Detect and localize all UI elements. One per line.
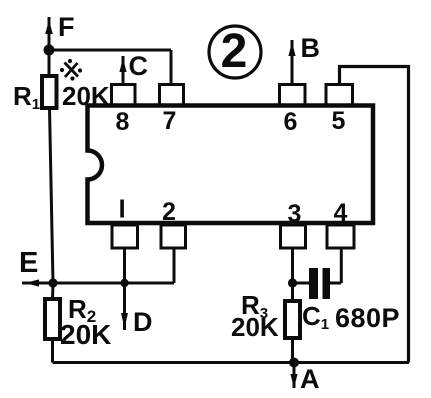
- wire R3 bottom lead: [291, 338, 294, 363]
- pin 3 box: [281, 225, 306, 248]
- wire R2 bottom lead: [51, 339, 54, 363]
- junction dot pin1: [120, 279, 128, 287]
- wire pin1 drop to D: [123, 248, 126, 330]
- svg-text:4: 4: [334, 199, 348, 227]
- pin 6 box: [280, 85, 306, 106]
- wire F riser: [48, 17, 51, 50]
- svg-text:E: E: [19, 247, 38, 279]
- pin 5 box: [326, 85, 353, 106]
- wire pin2 riser: [173, 248, 176, 283]
- wire R1 bottom lead down left side: [50, 108, 54, 283]
- figure number 2 circle: [209, 26, 261, 78]
- svg-text:2: 2: [162, 198, 176, 226]
- wire pin7 drop: [170, 50, 173, 87]
- op-amp IC U1 body with notch: [88, 106, 374, 224]
- svg-text:20K: 20K: [231, 312, 279, 342]
- pin 1 box: [112, 225, 138, 248]
- svg-text:2: 2: [221, 25, 248, 78]
- wire pin5 up over to right side down: [340, 67, 409, 363]
- junction dot pin3: [288, 278, 297, 287]
- pin 7 box: [160, 85, 184, 106]
- node C arrow: [122, 56, 125, 87]
- node A arrow: [293, 363, 296, 389]
- node F arrow: [45, 20, 53, 34]
- svg-text:7: 7: [163, 107, 177, 135]
- wire pin4 drop: [340, 248, 343, 283]
- svg-text:8: 8: [116, 108, 130, 136]
- svg-text:A: A: [300, 364, 320, 394]
- node D arrow: [121, 313, 128, 328]
- svg-text:5: 5: [332, 107, 346, 135]
- wire E horizontal to pin2: [53, 282, 174, 285]
- svg-text:D: D: [133, 307, 153, 337]
- resistor R1: [42, 76, 57, 108]
- capacitor C1: [309, 268, 318, 299]
- svg-text:3: 3: [288, 200, 302, 228]
- junction dot F: [44, 45, 55, 56]
- resistor R2: [45, 299, 60, 339]
- pin 4 box: [327, 225, 354, 248]
- resistor R3: [285, 301, 300, 338]
- svg-text:6: 6: [284, 108, 298, 136]
- wire R2 top lead: [51, 283, 55, 299]
- node E arrow: [22, 282, 53, 285]
- wire pin3 drop: [291, 248, 294, 301]
- svg-text:680P: 680P: [335, 303, 400, 333]
- pin 1 number: [120, 200, 124, 218]
- svg-text:B: B: [301, 33, 321, 63]
- wire cap right lead: [330, 282, 341, 285]
- svg-text:20K: 20K: [60, 319, 111, 350]
- wire top horizontal to pin7: [49, 49, 171, 52]
- wire bottom horizontal: [53, 361, 410, 364]
- junction dot A: [289, 358, 299, 368]
- pin 8 box: [112, 85, 136, 106]
- svg-text:F: F: [58, 12, 75, 42]
- wire cap left lead: [293, 282, 310, 285]
- node B arrow: [291, 40, 294, 87]
- junction dot E: [48, 278, 57, 287]
- asterisk mark: [60, 59, 82, 81]
- pin 2 box: [161, 225, 186, 248]
- svg-text:C: C: [129, 51, 149, 81]
- wire R1 top lead: [48, 50, 51, 76]
